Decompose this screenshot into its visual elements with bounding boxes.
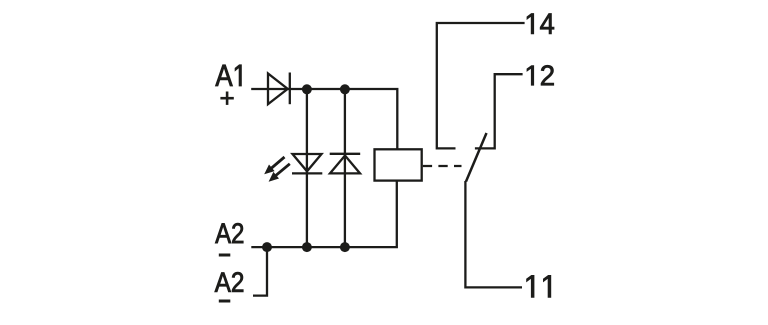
node top junction 1 [302,84,312,94]
wire A2 bottom rail [251,181,396,248]
minus polarity mark 1 [219,254,231,257]
wire terminal 12 [475,74,523,148]
terminal label A1 [215,65,241,86]
free-wheeling diode D2 [330,154,361,174]
terminal label 14 [527,14,554,34]
wire terminal 11 [465,181,522,287]
relay coil K1 [375,149,422,180]
terminal label A2 [215,223,243,243]
wire terminal 14 [437,23,525,148]
diode D1 [268,73,290,105]
plus polarity mark [220,92,233,105]
node bottom junction A2 [262,242,272,252]
contact arm [466,133,487,182]
wire A1 top rail [251,89,397,149]
wire second A2 hook [253,247,267,296]
terminal label 12 [527,65,554,85]
LED V1 [292,154,322,173]
dashed actuator link [423,165,462,167]
node top junction 2 [340,84,350,94]
terminal label 11 [527,275,551,297]
LED arrow 1 [264,157,284,174]
terminal label A2 (second) [215,272,244,292]
minus polarity mark 2 [219,300,231,303]
LED arrow 2 [269,164,290,182]
node bottom junction 3 [340,242,350,252]
wire diode branch vertical [344,89,346,247]
node bottom junction 2 [302,242,312,252]
wire LED branch vertical [306,89,308,247]
